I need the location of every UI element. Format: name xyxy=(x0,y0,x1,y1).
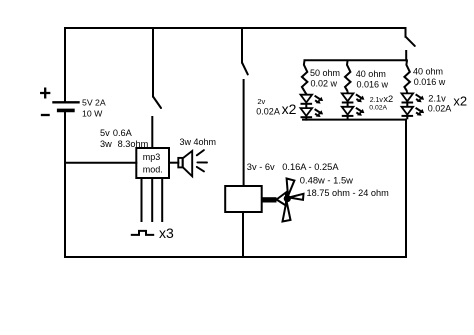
svg-text:0.02A: 0.02A xyxy=(428,104,452,114)
svg-text:0.02A: 0.02A xyxy=(369,104,387,111)
svg-text:2.1v: 2.1v xyxy=(428,94,446,104)
svg-text:5V 2A: 5V 2A xyxy=(82,98,106,108)
svg-text:0.016 w: 0.016 w xyxy=(414,77,446,87)
svg-text:x2: x2 xyxy=(453,93,467,108)
svg-text:50 ohm: 50 ohm xyxy=(310,68,340,78)
svg-text:0.016 w: 0.016 w xyxy=(357,80,389,90)
svg-text:0.16A - 0.25A: 0.16A - 0.25A xyxy=(282,162,339,172)
svg-text:3w8.3ohm: 3w8.3ohm xyxy=(100,139,149,149)
svg-text:40 ohm: 40 ohm xyxy=(413,67,443,77)
svg-text:2.1v: 2.1v xyxy=(370,97,384,104)
svg-text:40 ohm: 40 ohm xyxy=(356,69,386,79)
svg-text:0.48w - 1.5w: 0.48w - 1.5w xyxy=(300,175,353,186)
svg-text:3w 4ohm: 3w 4ohm xyxy=(180,137,217,147)
svg-text:18.75 ohm - 24 ohm: 18.75 ohm - 24 ohm xyxy=(307,188,390,198)
svg-text:x3: x3 xyxy=(159,225,174,241)
svg-text:0.02 w: 0.02 w xyxy=(311,78,338,88)
svg-text:0.02A: 0.02A xyxy=(256,106,280,116)
svg-text:mod.: mod. xyxy=(143,165,163,175)
svg-text:10 W: 10 W xyxy=(82,109,103,119)
svg-text:5v0.6A: 5v0.6A xyxy=(100,128,133,138)
svg-text:mp3: mp3 xyxy=(143,152,161,162)
svg-text:2v: 2v xyxy=(257,97,265,106)
svg-text:x2: x2 xyxy=(383,94,393,104)
svg-text:3v - 6v: 3v - 6v xyxy=(247,162,275,172)
svg-text:x2: x2 xyxy=(282,101,297,117)
